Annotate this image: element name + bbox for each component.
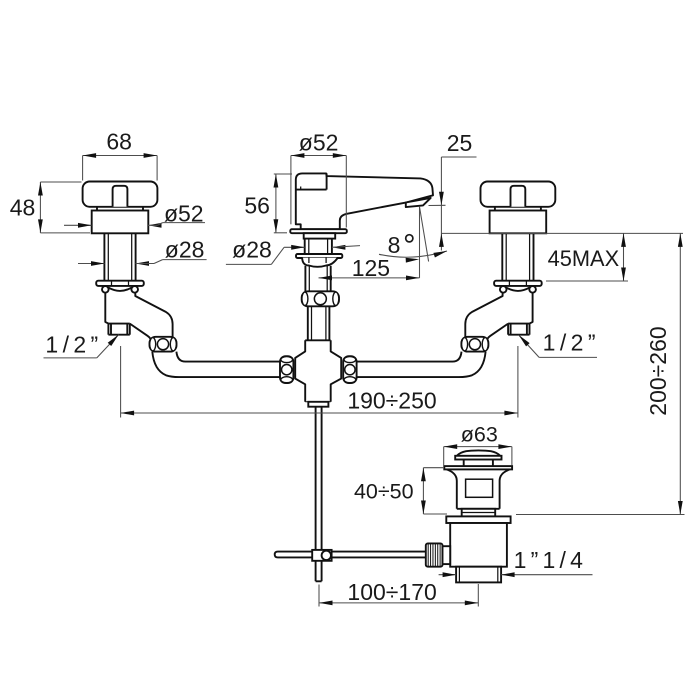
svg-text:1/2”: 1/2” <box>543 330 600 356</box>
svg-text:ø28: ø28 <box>165 237 205 263</box>
svg-text:40÷50: 40÷50 <box>354 480 414 504</box>
svg-text:ø63: ø63 <box>461 423 498 447</box>
svg-text:56: 56 <box>244 193 270 219</box>
svg-text:125: 125 <box>352 255 390 281</box>
svg-text:25: 25 <box>447 130 473 156</box>
svg-text:190÷250: 190÷250 <box>347 388 436 414</box>
svg-text:ø28: ø28 <box>232 237 272 263</box>
svg-text:1/2”: 1/2” <box>45 332 102 358</box>
svg-text:200÷260: 200÷260 <box>645 326 671 415</box>
svg-text:68: 68 <box>106 129 132 155</box>
svg-text:48: 48 <box>10 195 36 221</box>
svg-text:1”1/4: 1”1/4 <box>514 547 587 573</box>
svg-text:100÷170: 100÷170 <box>347 579 436 605</box>
svg-text:8: 8 <box>388 232 401 258</box>
svg-text:ø52: ø52 <box>299 129 339 155</box>
svg-text:45MAX: 45MAX <box>548 246 620 271</box>
